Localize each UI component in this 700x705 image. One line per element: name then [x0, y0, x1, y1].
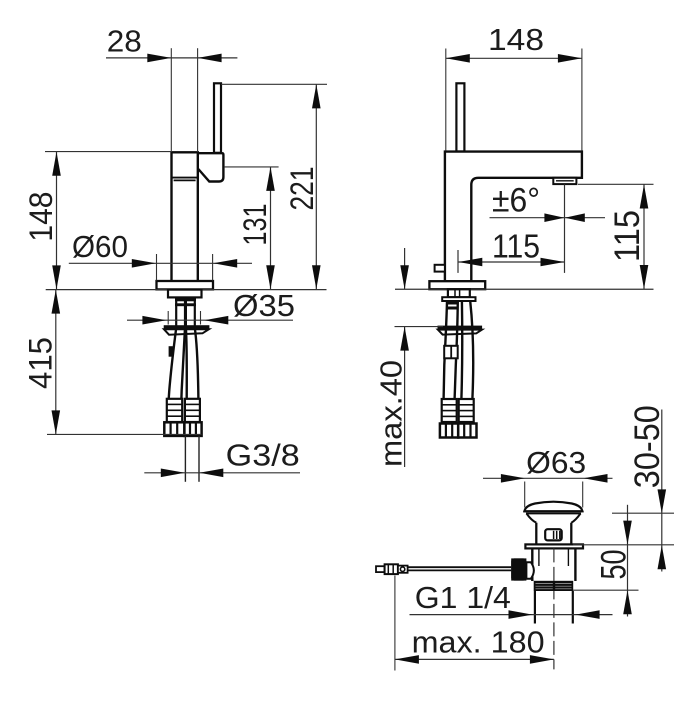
svg-text:G3/8: G3/8 — [226, 437, 300, 472]
svg-text:148: 148 — [488, 22, 544, 57]
svg-text:Ø63: Ø63 — [526, 445, 586, 480]
svg-text:Ø60: Ø60 — [72, 229, 128, 264]
svg-text:115: 115 — [608, 210, 647, 262]
svg-text:115: 115 — [492, 228, 540, 265]
svg-text:148: 148 — [23, 192, 59, 242]
svg-text:Ø35: Ø35 — [233, 288, 295, 323]
svg-text:30-50: 30-50 — [628, 405, 667, 488]
svg-text:max.40: max.40 — [374, 360, 409, 467]
svg-text:max. 180: max. 180 — [412, 625, 545, 660]
svg-text:G1 1/4: G1 1/4 — [415, 580, 511, 615]
svg-text:221: 221 — [284, 167, 320, 211]
svg-text:±6°: ±6° — [492, 181, 540, 219]
svg-text:50: 50 — [595, 550, 634, 580]
svg-text:131: 131 — [237, 204, 273, 246]
svg-text:28: 28 — [107, 23, 142, 58]
svg-text:415: 415 — [23, 337, 59, 389]
